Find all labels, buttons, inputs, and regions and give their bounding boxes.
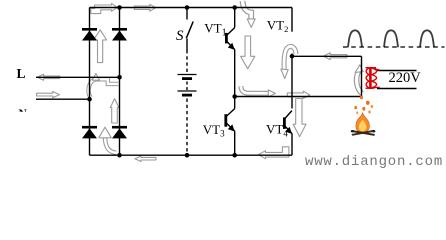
wire secondary bottom: [377, 88, 417, 90]
current-flow right arrow above N line: [37, 92, 60, 98]
wire VT2-VT4 leg: [291, 54, 293, 109]
wire switch branch top: [186, 8, 188, 20]
current-flow swoosh arrow at transformer primary: [355, 65, 363, 94]
wire VT1-VT3 leg upper: [234, 8, 236, 28]
wire dashed to battery: [186, 50, 188, 74]
wire L line: [36, 76, 120, 78]
current-flow big down arrow beside VT4: [293, 99, 306, 137]
wire dashed between cells: [186, 82, 188, 91]
wire secondary top: [377, 70, 417, 72]
wire VT1-VT3 leg middle: [234, 49, 236, 108]
wire left bridge leg: [89, 8, 91, 156]
current-flow hook arrow right on lower middle wire: [241, 86, 276, 97]
current-flow hook arrow down at VT2 node: [281, 46, 296, 78]
switch S blade: [186, 22, 193, 39]
current-flow up arrow on right bridge leg: [110, 99, 119, 123]
current-flow arrow top-left bend: [91, 3, 118, 13]
output half-sine pulses: [348, 30, 434, 47]
junction node dots: [87, 5, 294, 157]
wire VT2 collector stub: [291, 8, 293, 32]
diode VD3 bottom-left: [82, 127, 97, 138]
transistor VT4: [284, 111, 292, 134]
diode VD4 bottom-right: [112, 127, 127, 138]
wire right bridge leg: [119, 8, 121, 156]
campfire flame icon: [351, 96, 376, 136]
transformer core: [369, 67, 372, 89]
battery GB plates: [178, 75, 197, 96]
current-flow hook arrow down into VT1: [243, 1, 256, 27]
wire VT4 leg lower: [291, 133, 293, 155]
current-flow left arrow on bottom rail left: [135, 156, 156, 162]
current-flow hooked up arrow between bottom diodes: [99, 127, 116, 153]
current-flow straight right arrow crossing VT2 leg: [287, 91, 310, 98]
transistor VT3: [226, 109, 235, 132]
wire transformer primary vertical: [361, 56, 363, 96]
wire lower middle to transformer: [235, 96, 362, 98]
svg-text:www.diangon.com: www.diangon.com: [305, 154, 443, 170]
wire top rail: [90, 7, 293, 9]
current-flow curved arrow at L junction: [89, 74, 119, 98]
current-flow left arrow on bottom rail right: [258, 147, 289, 159]
svg-text:L: L: [17, 66, 26, 81]
current-flow left arrow on L line: [37, 74, 60, 80]
wire switch lower stub: [186, 39, 188, 51]
wire dashed battery to bottom rail: [186, 99, 188, 156]
current-flow left arrow on upper middle wire: [323, 53, 346, 60]
transistor VT1: [226, 28, 234, 50]
label N (clipped top fragment): [19, 108, 28, 120]
wire VT3 leg lower: [234, 131, 236, 155]
current-flow arrow right on top rail: [134, 4, 156, 11]
svg-text:S: S: [176, 28, 184, 44]
wire upper middle to transformer: [292, 55, 362, 57]
svg-text:220V: 220V: [389, 70, 422, 86]
diode VD1 top-left: [82, 29, 97, 40]
dashed zero axis of pulses: [343, 46, 445, 48]
transformer T windings: [366, 68, 380, 89]
wire N line: [36, 98, 90, 100]
current-flow big down arrow beside VT1: [241, 36, 255, 69]
current-flow up arrow between top diodes: [93, 30, 106, 63]
wire bottom rail: [90, 154, 293, 156]
diode VD2 top-right: [112, 29, 127, 40]
